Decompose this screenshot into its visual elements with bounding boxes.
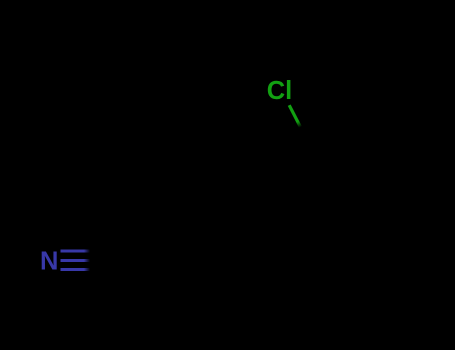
svg-text:Cl: Cl: [267, 77, 293, 105]
wire: bond C1-C2 (near-invisible): [120, 205, 217, 261]
triple bond N#C (near-black half toward carbon C1): [90, 251, 120, 270]
triple bond N#C (blue half), line 1 top: [61, 250, 91, 253]
bond Cl-ring (green half): [289, 105, 300, 127]
wire: bond C2-ring (near-invisible): [216, 198, 313, 205]
triple bond N#C (blue half), line 3 bottom: [61, 268, 91, 271]
svg-text:N: N: [40, 247, 58, 275]
triple bond N#C (blue half), line 2 middle: [61, 259, 92, 262]
bond Cl-ring (black half): [301, 127, 313, 148]
benzene ring (near-invisible): [313, 124, 398, 222]
